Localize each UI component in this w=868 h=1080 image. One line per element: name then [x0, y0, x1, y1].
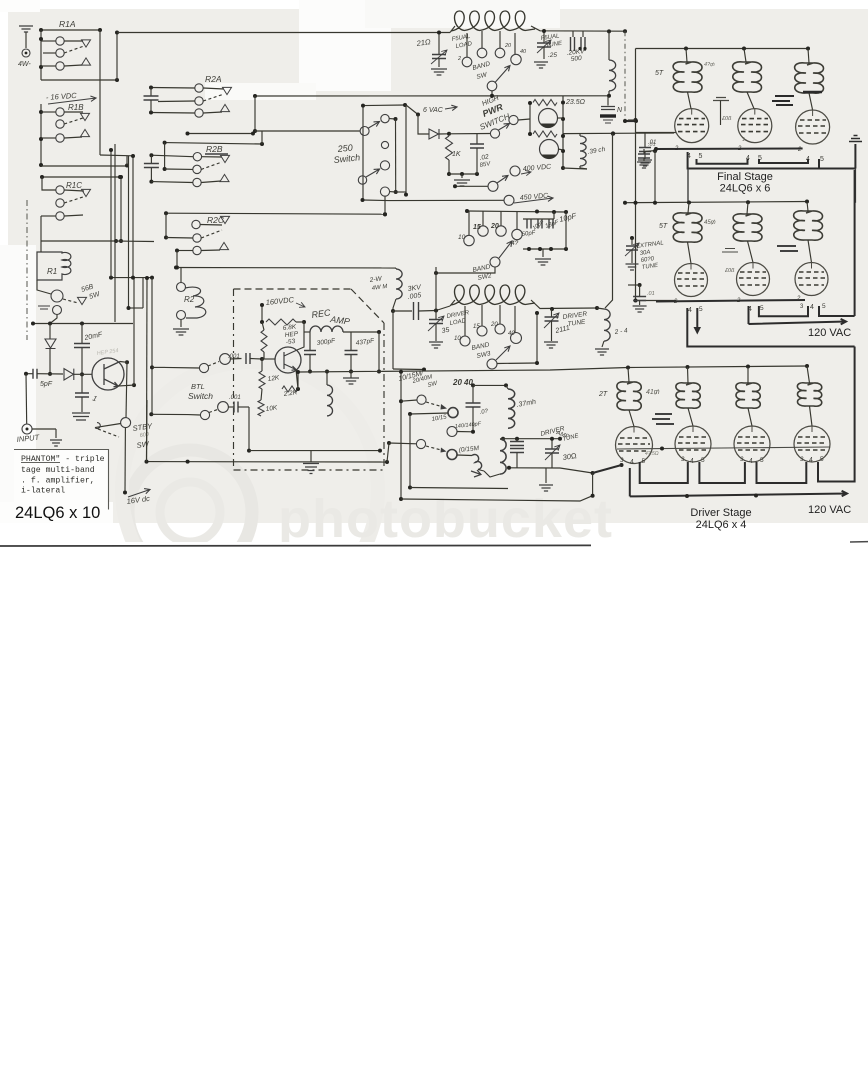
node [447, 132, 451, 136]
svg-text:photobucket: photobucket [278, 489, 613, 549]
wire [304, 331, 310, 333]
wire [262, 358, 275, 360]
wire [81, 397, 83, 412]
grid cap row2 [722, 249, 738, 253]
ground rec [343, 378, 359, 384]
dashed box left [233, 289, 235, 468]
wire wiper dashed [203, 94, 224, 101]
wire [81, 348, 83, 374]
wire rotor stem [436, 267, 495, 273]
node [260, 303, 264, 307]
node [361, 104, 365, 108]
underline [21, 462, 60, 464]
tube V-final-1 24LQ6 [675, 109, 709, 143]
wire riser [261, 131, 263, 144]
resistor 10K [258, 400, 264, 416]
switch band1 c [495, 48, 505, 58]
svg-text:R1: R1 [47, 267, 57, 276]
contact triangle [221, 104, 230, 111]
wire [631, 238, 633, 245]
wire [42, 177, 56, 190]
node [552, 210, 556, 214]
node [475, 172, 479, 176]
wire cap stem [150, 168, 152, 182]
resistor 1K [446, 136, 453, 160]
switch BTL a [199, 363, 208, 372]
node [149, 86, 153, 90]
wire [49, 349, 51, 374]
wire [74, 373, 92, 375]
wire 21 cap stem [438, 33, 440, 55]
svg-text:BTL: BTL [191, 382, 205, 391]
node [549, 247, 553, 251]
wire [37, 373, 63, 375]
wire contact arm [203, 112, 222, 113]
node [504, 383, 508, 387]
wire contact arm [64, 137, 82, 138]
node [150, 365, 154, 369]
wire [688, 242, 692, 264]
node [394, 190, 398, 194]
wire stem [514, 306, 516, 333]
wire jog [100, 154, 133, 157]
switch LP c5 [447, 427, 457, 437]
node [377, 370, 381, 374]
wire stem [499, 305, 501, 324]
wire [435, 324, 437, 342]
white left margin [0, 245, 36, 523]
node [416, 113, 420, 117]
heater pin5 t3 [818, 159, 820, 169]
wire [151, 155, 193, 157]
node [564, 247, 568, 251]
wire [180, 268, 182, 283]
capacitor .20KV b [581, 37, 585, 51]
wire [176, 251, 178, 268]
inductor rec tank coil [310, 326, 343, 332]
node [308, 370, 312, 374]
wire mid rail [503, 438, 560, 440]
node [253, 129, 257, 133]
wire [551, 309, 553, 317]
wire [808, 49, 809, 64]
arrowhead [441, 404, 448, 410]
wire bypass stem [81, 374, 83, 392]
svg-text:5: 5 [820, 456, 824, 463]
capacitor 20mF [74, 344, 90, 348]
node [630, 236, 634, 240]
wire riser [536, 313, 538, 363]
wire bus x152 [151, 278, 153, 415]
wire input line [26, 373, 33, 375]
node [528, 101, 532, 105]
wire bus x133 [132, 156, 134, 278]
svg-text:2: 2 [736, 298, 741, 304]
inductor drv choke 2 [676, 383, 700, 408]
capacitor final tune [537, 43, 551, 47]
wire [164, 143, 166, 169]
node [349, 370, 353, 374]
relay contact R2A-1 [195, 84, 203, 92]
svg-text:4?.5Ω: 4?.5Ω [645, 451, 659, 457]
wire riser [126, 156, 128, 166]
node [490, 94, 494, 98]
wire contact arm [64, 65, 82, 66]
faint watermark group [122, 362, 613, 618]
dark bar above tube3 [803, 91, 822, 94]
svg-text:R1A: R1A [59, 19, 76, 29]
wire [579, 133, 581, 136]
node [527, 247, 531, 251]
contact triangle [223, 87, 232, 94]
ground [431, 69, 447, 75]
lever hook [95, 423, 100, 429]
node [31, 322, 35, 326]
node [39, 110, 43, 114]
svg-text:5: 5 [760, 305, 764, 312]
wire stem [499, 31, 501, 48]
relay contact R2C-2 [193, 234, 201, 242]
stub dashes 1 [652, 414, 674, 424]
node base junction [80, 372, 84, 376]
switch bsw2 20 [496, 226, 506, 236]
relay contact R2C-1 [192, 220, 200, 228]
svg-text:4?₥: 4?₥ [704, 62, 715, 68]
Final Stage box [688, 169, 855, 203]
capacitor driver amp tune [545, 449, 559, 453]
ground [633, 306, 647, 312]
wire emitter drop [296, 370, 298, 390]
node [175, 249, 179, 253]
dashed box right [383, 323, 385, 468]
wire vcc rail [261, 305, 263, 322]
wire y186 stub [455, 185, 488, 187]
wire driver coil left [436, 306, 450, 311]
svg-text:2: 2 [457, 56, 461, 62]
wire [389, 442, 417, 445]
wire contact arm [64, 190, 84, 191]
wire lamp1 link [557, 117, 563, 119]
wire [449, 133, 490, 135]
relay contact R1A-1 [56, 37, 64, 45]
node [123, 491, 127, 495]
node [746, 365, 750, 369]
diode D2 [64, 369, 74, 380]
wire [165, 366, 199, 369]
wire [37, 280, 51, 294]
wire [303, 322, 305, 332]
diode D3 [429, 129, 439, 139]
wire emitter bus up [133, 278, 135, 386]
arrow 160vdc [296, 302, 305, 307]
relay contact R2B-1 [193, 153, 201, 161]
variable arrow [545, 445, 560, 460]
switch wafer B [381, 114, 389, 122]
wire trim rail [523, 218, 554, 220]
wire [158, 100, 195, 103]
svg-text:35: 35 [441, 327, 450, 335]
heater t3p5 [819, 306, 855, 316]
node [48, 372, 52, 376]
wiper dashed [426, 402, 443, 407]
node [387, 441, 391, 445]
inductor 39ch choke [580, 136, 586, 166]
wire [563, 168, 587, 169]
node [437, 31, 441, 35]
svg-text:5: 5 [822, 303, 826, 310]
switch BTL b [220, 354, 231, 365]
ground at input [50, 440, 62, 446]
switch 400vdc a [488, 181, 498, 191]
node [260, 357, 264, 361]
node [131, 154, 135, 158]
wire bsw2 top rail [467, 211, 566, 212]
wire contact arm [201, 181, 221, 183]
relay contact R2B-3 [193, 178, 201, 186]
switch bsw2 rotor [490, 257, 500, 267]
node [654, 147, 658, 151]
relay contact R1C-2 [56, 199, 64, 207]
wire [387, 443, 389, 462]
wire riser R1A right [99, 30, 101, 155]
node [399, 497, 403, 501]
capacitor external tune [626, 246, 638, 250]
inductor 2-W choke [396, 269, 402, 299]
wire 250sw right frame [405, 105, 407, 195]
wire [472, 385, 474, 402]
wire gnd stem [854, 144, 856, 169]
wire rotor lead [497, 362, 537, 365]
wire stem [481, 305, 483, 326]
node [403, 103, 407, 107]
wire [395, 268, 397, 269]
node [149, 412, 153, 416]
wiper dashed [209, 409, 219, 413]
node [591, 494, 595, 498]
relay contact R2A-2 [195, 97, 203, 105]
node [131, 276, 135, 280]
wire [720, 101, 722, 126]
svg-text:24LQ6 x 6: 24LQ6 x 6 [720, 183, 771, 195]
white area under title [0, 502, 113, 523]
switch BTL c [200, 410, 209, 419]
wire [543, 47, 545, 59]
ground [429, 342, 443, 348]
wire main rail y370 [298, 366, 808, 372]
wiper arm E-D [366, 169, 380, 177]
wire stem [481, 31, 483, 48]
lamp V1 base [540, 124, 556, 128]
node [164, 211, 168, 215]
node [653, 201, 657, 205]
wire [457, 431, 473, 433]
capacitor .02 [470, 144, 484, 148]
contact triangle [82, 189, 91, 196]
wire R1B left bus [40, 104, 42, 166]
resistor 6.8K [266, 319, 296, 325]
wire [448, 160, 450, 174]
node [561, 166, 565, 170]
wire bus y267 [177, 267, 396, 270]
wire caps stack stem [516, 439, 518, 441]
wire coil left lead [450, 26, 455, 33]
resistor 45ohm pilot [533, 131, 557, 137]
white corner top-left [0, 0, 40, 12]
node [620, 463, 624, 467]
wiper dashed [208, 362, 219, 367]
capacitor driver load [429, 320, 443, 324]
node [149, 153, 153, 157]
wire [177, 250, 193, 252]
wire [551, 439, 553, 449]
node [149, 111, 153, 115]
svg-text:5T: 5T [659, 223, 668, 230]
node [515, 437, 519, 441]
wire [296, 321, 304, 323]
node [391, 309, 395, 313]
switch wafer A [360, 127, 369, 136]
node [40, 175, 44, 179]
wire wiper dashed [64, 118, 83, 124]
wire left drop [629, 468, 631, 496]
lamp V1 [539, 109, 558, 128]
wire [602, 341, 604, 347]
node [186, 132, 190, 136]
svg-text:2: 2 [673, 299, 678, 305]
heater U2 [759, 159, 808, 163]
svg-text:4W-: 4W- [18, 61, 31, 68]
wire bus x121 [120, 177, 122, 241]
node [399, 370, 403, 374]
tube V-drv-3 24LQ6 [734, 426, 770, 462]
wire dashdot left boundary [26, 200, 28, 340]
node [115, 78, 119, 82]
node [39, 137, 43, 141]
node [260, 142, 264, 146]
relay contact R1B-3 [56, 134, 64, 142]
jack R2 b [177, 311, 186, 320]
wire R1A top rail [41, 29, 100, 31]
ground G1 top-left [19, 26, 33, 32]
wire gnd rail [449, 173, 477, 175]
white strip top middle [299, 0, 391, 91]
wire coil right lead [531, 26, 625, 31]
capacitor .20KV a [571, 37, 575, 51]
wire rec out riser [378, 332, 380, 372]
svg-text:R2A: R2A [205, 74, 222, 84]
white band left-middle [205, 83, 316, 100]
wire stub [152, 366, 165, 368]
wire [401, 400, 417, 401]
svg-text:5pF: 5pF [40, 381, 53, 388]
wiper dashed [426, 446, 443, 451]
arrow 450vdc [514, 196, 553, 203]
wire [326, 372, 328, 386]
tube V-final-2 24LQ6 [738, 109, 772, 143]
node [163, 141, 167, 145]
wire stby drop [124, 428, 126, 493]
wire 6vac riser [406, 105, 418, 115]
wire [518, 119, 530, 120]
node [302, 320, 306, 324]
node [149, 180, 153, 184]
wire [396, 191, 406, 193]
wire R1C drop [40, 216, 42, 241]
wire [418, 115, 429, 135]
wire [592, 473, 594, 496]
wire F stem [384, 196, 386, 214]
node [145, 276, 149, 280]
label underline [205, 153, 228, 155]
node [174, 266, 178, 270]
wire bus y131 [255, 130, 360, 132]
svg-text:15: 15 [473, 224, 481, 231]
wire [248, 407, 250, 451]
node [434, 309, 438, 313]
wire [528, 218, 530, 221]
wire cap stem [150, 88, 152, 96]
node [685, 494, 689, 498]
wire [747, 367, 749, 384]
wire stem [514, 33, 516, 54]
text box white [14, 450, 109, 510]
wire [478, 470, 484, 472]
node [48, 322, 52, 326]
wire [688, 408, 693, 426]
wire [506, 385, 508, 389]
grid cap LOD [713, 98, 729, 101]
wire [250, 358, 262, 361]
wire [41, 137, 56, 139]
coil R1 body [37, 252, 71, 280]
wire riser [435, 267, 437, 311]
inductor driver tank coil [451, 285, 535, 305]
heater U1 row3 [640, 462, 688, 483]
wire [747, 202, 748, 214]
node [164, 236, 168, 240]
switch 400vdc b [510, 166, 520, 176]
wire lever [95, 424, 121, 428]
switch band1 rotor [487, 81, 497, 91]
scanned page area [8, 9, 868, 523]
wire R2B top rail [165, 143, 262, 144]
wire long drop to driver [605, 134, 613, 308]
resistor 12K [259, 371, 265, 389]
node [127, 306, 131, 310]
capacitor BTL lower [234, 402, 238, 413]
svg-text:£0ß: £0ß [721, 116, 732, 122]
wire diode branch [49, 324, 51, 340]
switch HIGHPWR b [509, 115, 518, 124]
inductor plate choke 1-3 [795, 63, 824, 93]
wire [43, 52, 56, 54]
stray dashes row2 [777, 246, 798, 251]
node [39, 65, 43, 69]
wire cathode rail row1 [656, 148, 803, 151]
contact bars [38, 306, 50, 309]
wire [688, 92, 692, 109]
node [447, 172, 451, 176]
svg-text:SW: SW [136, 439, 150, 450]
wire [151, 112, 195, 115]
node [558, 437, 562, 441]
node [145, 460, 149, 464]
wire [309, 332, 311, 350]
wire cap stem [150, 155, 152, 163]
wire bypass .01 [644, 133, 646, 147]
ground [539, 485, 553, 491]
trimmer 10pF [538, 220, 542, 229]
